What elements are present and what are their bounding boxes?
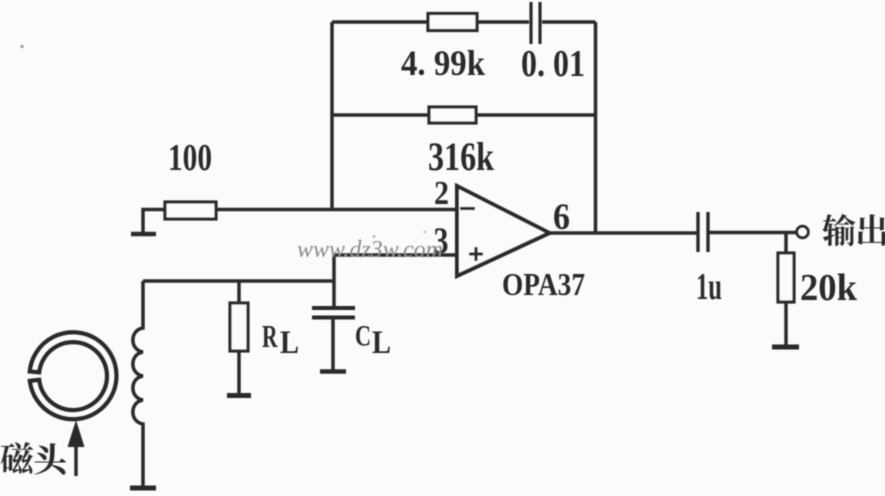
svg-text:OPA37: OPA37 xyxy=(502,266,585,302)
svg-text:R: R xyxy=(262,318,278,354)
svg-text:6: 6 xyxy=(553,197,570,238)
svg-text:C: C xyxy=(355,320,371,353)
svg-text:100: 100 xyxy=(168,137,212,179)
svg-text:L: L xyxy=(280,325,299,361)
svg-text:www.dz3w.com: www.dz3w.com xyxy=(297,237,443,263)
svg-text:1u: 1u xyxy=(696,266,722,308)
svg-text:2: 2 xyxy=(434,175,449,212)
svg-text:0. 01: 0. 01 xyxy=(521,43,585,85)
svg-text:20k: 20k xyxy=(800,267,858,309)
svg-text:316k: 316k xyxy=(428,134,495,179)
svg-text:4. 99k: 4. 99k xyxy=(401,43,485,83)
svg-text:L: L xyxy=(372,325,391,361)
